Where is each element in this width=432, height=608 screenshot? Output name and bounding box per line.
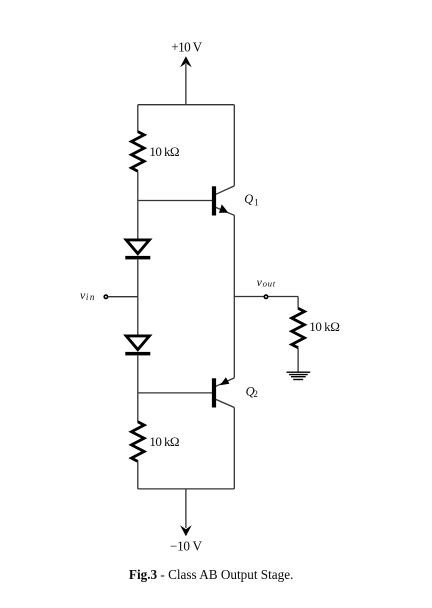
svg-text:10 kΩ: 10 kΩ	[149, 434, 179, 449]
wire vin lead	[108, 296, 138, 298]
transistor Q2 base bar	[212, 378, 216, 407]
transistor Q2 collector diagonal	[216, 399, 235, 407]
node vin terminal circle	[104, 295, 107, 298]
transistor Q1 collector diagonal	[216, 186, 235, 194]
power -10V arrowhead	[180, 525, 192, 536]
ground symbol	[287, 372, 311, 379]
wire -10V supply stem	[185, 489, 187, 528]
transistor Q2 emitter diagonal	[216, 378, 235, 386]
diode D2 triangle	[126, 336, 149, 350]
wire R3 to ground	[297, 348, 299, 372]
svg-text:−10 V: −10 V	[170, 539, 202, 554]
svg-text:+10 V: +10 V	[171, 40, 202, 55]
svg-text:1: 1	[254, 197, 259, 207]
diode D1 triangle	[126, 240, 149, 254]
resistor R2 10k zigzag	[131, 422, 144, 462]
transistor Q1 base bar	[212, 186, 216, 215]
svg-text:10 kΩ: 10 kΩ	[149, 144, 179, 159]
wire Q1 base	[138, 200, 212, 202]
svg-text:out: out	[263, 279, 276, 289]
svg-text:in: in	[86, 292, 95, 302]
wire vout lead	[234, 296, 298, 298]
node vout terminal circle	[264, 295, 267, 298]
wire +10V supply stem	[185, 64, 187, 105]
svg-text:10 kΩ: 10 kΩ	[309, 319, 340, 334]
svg-text:Fig.3 - Class AB Output Stage.: Fig.3 - Class AB Output Stage.	[129, 567, 294, 582]
wire left rail between R1 and D1	[137, 171, 139, 239]
resistor R1 10k zigzag	[131, 132, 144, 172]
transistor Q1 emitter arrow	[219, 204, 228, 213]
diode D1 cathode bar	[125, 256, 150, 260]
wire left rail between D2 and R2	[137, 355, 139, 422]
power +10V arrowhead	[180, 56, 192, 67]
wire vout to R3	[297, 297, 299, 309]
wire left rail lower	[137, 461, 139, 489]
wire left rail upper	[137, 105, 139, 132]
svg-text:2: 2	[253, 389, 258, 399]
wire Q2 base	[138, 392, 212, 394]
diode D2 cathode bar	[125, 352, 150, 356]
transistor Q1 emitter diagonal	[216, 207, 235, 215]
resistor R3 10k zigzag	[292, 308, 305, 348]
wire left rail between D1 and D2	[137, 259, 139, 335]
wire right rail lower (Q2 collector to bottom rail)	[233, 408, 235, 489]
svg-text:Q: Q	[244, 192, 253, 206]
wire bottom rail	[138, 488, 235, 490]
wire right rail middle (Q1 emitter to Q2 emitter)	[233, 215, 235, 378]
transistor Q2 emitter arrow	[220, 377, 230, 385]
wire top rail	[138, 104, 235, 106]
wire right rail upper (Q1 collector feed)	[233, 105, 235, 186]
